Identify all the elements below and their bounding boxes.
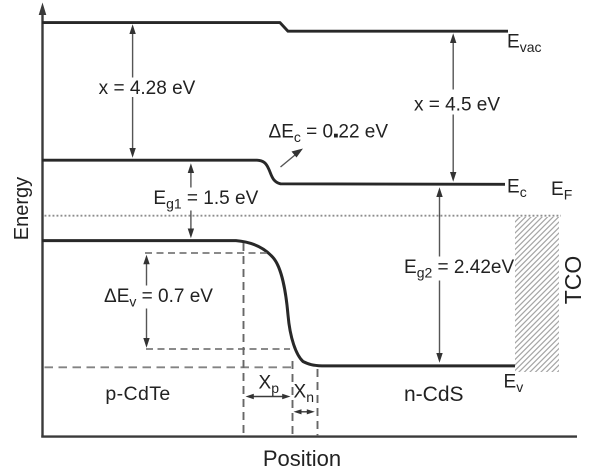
E_g2 arrow bbox=[439, 194, 441, 356]
delta E_v label bbox=[101, 286, 216, 309]
delta E_v arrow bbox=[146, 259, 148, 342]
E_F dotted line bbox=[45, 215, 562, 217]
svg-text:Position: Position bbox=[263, 446, 341, 471]
svg-text:ΔEc = 0.22 eV: ΔEc = 0.22 eV bbox=[269, 121, 389, 145]
junction vertical dashed line 2 bbox=[292, 361, 294, 436]
y-axis bbox=[41, 12, 43, 438]
bold decimal point of 0.22 bbox=[334, 134, 338, 138]
y-axis arrowhead bbox=[39, 3, 47, 16]
delta E_c annotation arrow bbox=[281, 153, 299, 168]
delta E_v box top dashed bbox=[145, 252, 267, 254]
x-axis bbox=[41, 435, 577, 437]
svg-text:x = 4.5 eV: x = 4.5 eV bbox=[414, 94, 500, 115]
svg-text:n-CdS: n-CdS bbox=[404, 383, 464, 406]
svg-text:TCO: TCO bbox=[560, 256, 586, 305]
svg-text:Energy: Energy bbox=[11, 177, 33, 240]
junction vertical dashed line 1 bbox=[243, 243, 245, 436]
E_v dashed extension bbox=[45, 366, 294, 368]
svg-text:ΔEv = 0.7 eV: ΔEv = 0.7 eV bbox=[104, 286, 213, 310]
chi2 label bbox=[412, 90, 503, 115]
chi1 label bbox=[96, 78, 199, 98]
delta E_v box bottom dashed bbox=[146, 348, 290, 350]
chi2 arrow (x = 4.5 eV) bbox=[452, 41, 454, 175]
E_c band bbox=[42, 160, 505, 184]
E_g2 label bbox=[403, 257, 515, 281]
E_g1 label bbox=[150, 188, 262, 211]
svg-text:p-CdTe: p-CdTe bbox=[105, 383, 170, 405]
TCO hatched region bbox=[515, 217, 559, 372]
X_p arrow bbox=[250, 396, 287, 398]
E_vac band bbox=[42, 23, 508, 32]
svg-text:x = 4.28 eV: x = 4.28 eV bbox=[99, 78, 196, 99]
junction vertical dashed line 3 bbox=[317, 369, 319, 436]
chi1 arrow (x = 4.28 eV) bbox=[132, 31, 134, 151]
X_n arrow bbox=[298, 411, 311, 413]
E_g1 arrow bbox=[190, 169, 192, 232]
E_v band bbox=[42, 241, 515, 366]
